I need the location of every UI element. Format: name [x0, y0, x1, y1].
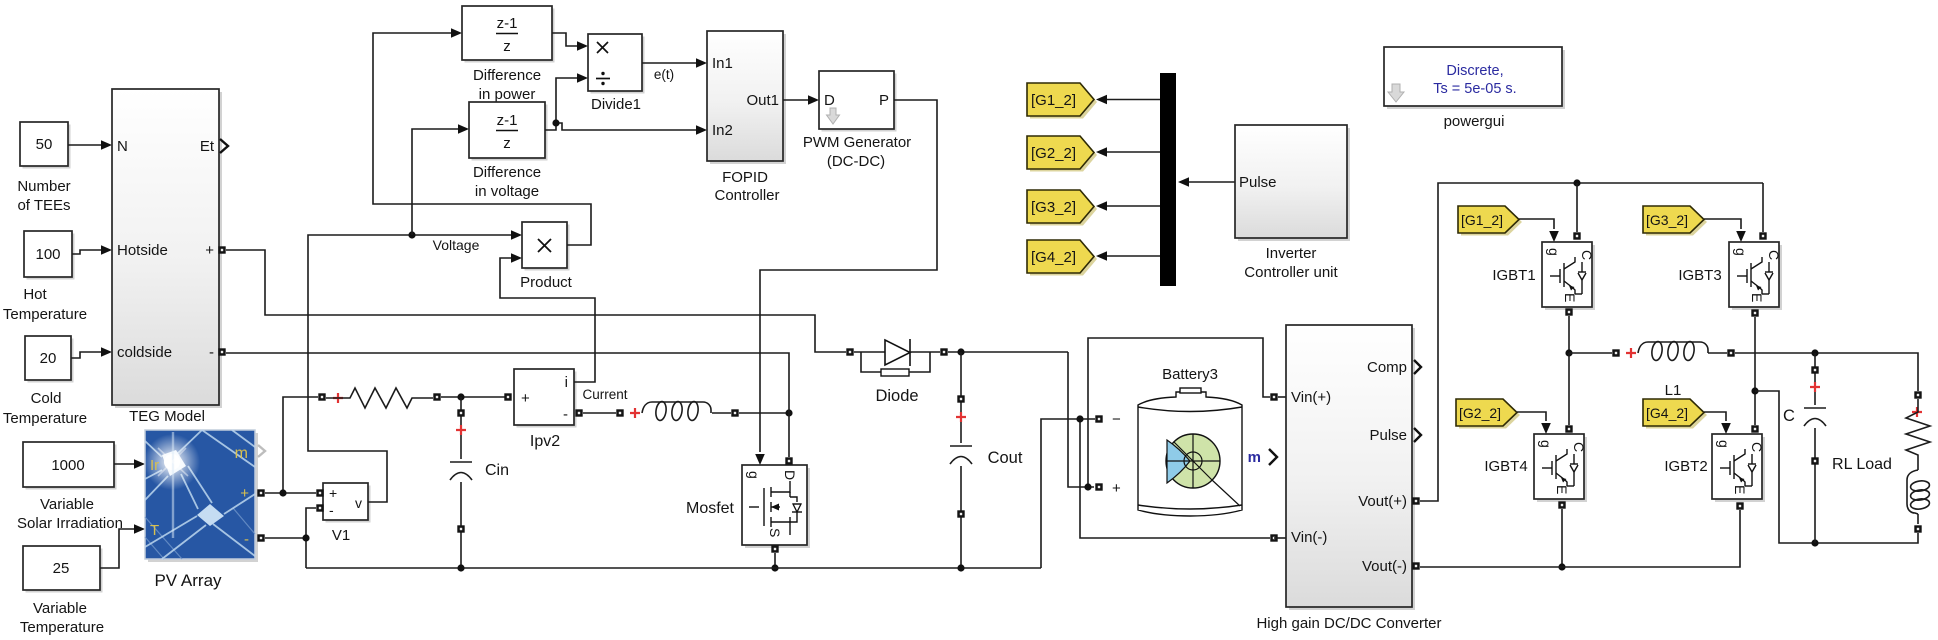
- svg-text:Pulse: Pulse: [1239, 174, 1277, 191]
- svg-text:(DC-DC): (DC-DC): [827, 153, 885, 170]
- svg-text:m: m: [1248, 449, 1261, 466]
- svg-text:Vout(-): Vout(-): [1362, 558, 1407, 575]
- svg-text:Cout: Cout: [988, 449, 1023, 467]
- output chevron Comp: [1414, 360, 1421, 374]
- constant block 20: [25, 336, 74, 383]
- bridge mid rail wires: [1569, 349, 1918, 391]
- svg-text:Controller unit: Controller unit: [1244, 264, 1338, 281]
- wire G2_2 to IGBT4 gate: [1517, 412, 1551, 434]
- svg-text:powergui: powergui: [1444, 113, 1505, 130]
- svg-text:+: +: [240, 485, 249, 502]
- wire G1_2 to IGBT1 gate: [1519, 219, 1559, 242]
- svg-text:Et: Et: [200, 138, 215, 155]
- output chevron PV m: [258, 445, 265, 457]
- svg-text:Ir: Ir: [150, 457, 159, 474]
- wire 20 to TEG coldside: [71, 347, 112, 358]
- wire Ipv2 i signal to Product in2: [500, 253, 595, 382]
- wire IGBT4 emitter to Vout minus rail: [1558, 501, 1565, 570]
- svg-text:High gain DC/DC Converter: High gain DC/DC Converter: [1256, 615, 1441, 632]
- svg-text:Discrete,: Discrete,: [1446, 63, 1503, 79]
- svg-text:Temperature: Temperature: [3, 410, 87, 427]
- svg-text:25: 25: [53, 560, 70, 577]
- wire Difference in power to Divide1: [552, 33, 588, 51]
- svg-text:Difference: Difference: [473, 164, 541, 181]
- inductor L input: [583, 401, 793, 421]
- svg-text:Temperature: Temperature: [3, 306, 87, 323]
- svg-text:D: D: [782, 470, 798, 480]
- port TEG plus: [218, 246, 225, 253]
- wire Vout plus to top dc rail: [1420, 179, 1763, 501]
- svg-text:1000: 1000: [51, 457, 84, 474]
- capacitor Cin: [450, 397, 472, 568]
- svg-text:-: -: [563, 406, 568, 423]
- svg-text:Mosfet: Mosfet: [686, 500, 735, 517]
- block PV Array: [144, 430, 258, 562]
- inductor L1: [1612, 341, 1734, 361]
- block PWM Generator DC-DC: [819, 71, 897, 132]
- goto tag G4_2: [1027, 240, 1097, 276]
- wire 25 to PV T: [100, 524, 145, 568]
- svg-text:i: i: [565, 374, 568, 391]
- wire top rail to IGBT3 collector: [1759, 183, 1766, 240]
- wire mux to G2_2: [1096, 147, 1160, 157]
- svg-text:Pulse: Pulse: [1369, 427, 1407, 444]
- svg-text:Solar Irradiation: Solar Irradiation: [17, 515, 123, 532]
- port battery minus: [1095, 415, 1102, 422]
- svg-text:[G2_2]: [G2_2]: [1031, 145, 1076, 162]
- wire bridge leg2 to load bottom rail: [1755, 391, 1918, 547]
- svg-text:IGBT1: IGBT1: [1492, 267, 1535, 284]
- wire mux to G3_2: [1096, 201, 1160, 211]
- block Mosfet: [742, 465, 810, 548]
- wire PV plus to V1 and resistor: [265, 397, 318, 497]
- wire Vin minus stub: [1274, 537, 1286, 539]
- wire 50 to TEG N: [68, 140, 112, 150]
- wire top rail to IGBT1 collector: [1573, 183, 1580, 240]
- wire FOPID Out1 to PWM D: [783, 95, 819, 105]
- wire bridge rail to IGBT4 collector: [1565, 353, 1572, 433]
- subsystem FOPID Controller: [707, 31, 786, 164]
- svg-text:z-1: z-1: [497, 112, 518, 129]
- RL load branch: [1906, 391, 1930, 532]
- svg-text:Inverter: Inverter: [1266, 245, 1317, 262]
- port V1 plus: [316, 489, 323, 496]
- svg-text:PV Array: PV Array: [154, 571, 222, 590]
- wire mux to G1_2: [1096, 95, 1160, 105]
- svg-text:[G4_2]: [G4_2]: [1031, 249, 1076, 266]
- port TEG minus: [218, 348, 225, 355]
- svg-text:[G3_2]: [G3_2]: [1031, 199, 1076, 216]
- wire Divide1 to FOPID In1: [642, 58, 707, 68]
- output chevron Pulse: [1414, 428, 1421, 442]
- svg-text:PWM Generator: PWM Generator: [803, 134, 911, 151]
- svg-text:e(t): e(t): [654, 67, 674, 82]
- port PV plus: [257, 489, 264, 496]
- IGBT3: [1729, 242, 1782, 310]
- svg-text:C: C: [1783, 407, 1795, 425]
- svg-text:IGBT4: IGBT4: [1484, 458, 1527, 475]
- svg-text:Current: Current: [582, 387, 627, 402]
- port Vout plus: [1412, 497, 1419, 504]
- constant block 100: [24, 231, 75, 280]
- wire Vout minus rail: [1420, 502, 1744, 567]
- svg-text:Ipv2: Ipv2: [530, 433, 560, 450]
- svg-text:Variable: Variable: [40, 496, 94, 513]
- wire Product output feedback to Difference in power: [373, 28, 591, 245]
- port Vin minus: [1270, 534, 1277, 541]
- svg-text:g: g: [746, 471, 762, 479]
- svg-text:Vin(-): Vin(-): [1291, 529, 1327, 546]
- constant block 25: [23, 546, 103, 593]
- wire 100 to TEG Hotside: [72, 245, 112, 255]
- svg-text:+: +: [521, 390, 530, 407]
- port V1 minus: [316, 504, 323, 511]
- svg-text:S: S: [767, 528, 783, 537]
- svg-text:+: +: [329, 485, 337, 501]
- constant block 1000: [23, 442, 117, 490]
- svg-text:Hot: Hot: [23, 286, 47, 303]
- svg-text:−: −: [1112, 411, 1121, 428]
- svg-text:z: z: [503, 135, 511, 152]
- port Mosfet source: [771, 545, 778, 552]
- wire G3_2 to IGBT3 gate: [1704, 219, 1746, 242]
- port Vin plus: [1270, 393, 1277, 400]
- svg-text:Hotside: Hotside: [117, 242, 168, 259]
- svg-text:+: +: [1112, 480, 1121, 497]
- svg-text:Number: Number: [17, 178, 70, 195]
- svg-text:TEG Model: TEG Model: [129, 408, 205, 425]
- battery minus wire to ground node: [1041, 415, 1270, 568]
- svg-text:20: 20: [40, 350, 57, 367]
- battery Battery3: [1112, 366, 1242, 516]
- port battery plus: [1095, 483, 1102, 490]
- svg-text:Out1: Out1: [746, 92, 779, 109]
- svg-text:-: -: [329, 502, 334, 518]
- wire resistor to Ipv2: [441, 393, 505, 400]
- battery m output: [1248, 449, 1277, 466]
- svg-text:N: N: [117, 138, 128, 155]
- svg-text:in voltage: in voltage: [475, 183, 539, 200]
- port Vout minus: [1412, 562, 1419, 569]
- svg-text:Diode: Diode: [875, 387, 918, 405]
- wire Difference in voltage to Divide1 and In2: [545, 73, 707, 135]
- svg-text:of TEEs: of TEEs: [17, 197, 70, 214]
- svg-text:Vout(+): Vout(+): [1358, 493, 1407, 510]
- diode D1 with snubber: [846, 339, 947, 376]
- wire dc bus to battery plus: [1068, 338, 1270, 491]
- svg-text:-: -: [244, 531, 249, 548]
- svg-text:Product: Product: [520, 274, 573, 291]
- svg-text:[G2_2]: [G2_2]: [1459, 405, 1501, 421]
- svg-text:-: -: [209, 344, 214, 361]
- IGBT4: [1534, 434, 1587, 502]
- svg-text:In2: In2: [712, 122, 733, 139]
- capacitor C: [1804, 353, 1826, 543]
- svg-text:Voltage: Voltage: [433, 237, 480, 253]
- svg-text:RL Load: RL Load: [1832, 456, 1892, 473]
- svg-text:Battery3: Battery3: [1162, 366, 1218, 383]
- svg-text:100: 100: [35, 246, 60, 263]
- wire Voltage branch to Difference in voltage: [412, 124, 469, 235]
- constant block 50: [20, 122, 71, 169]
- wire TEG minus to Mosfet drain: [226, 353, 789, 457]
- svg-text:Variable: Variable: [33, 600, 87, 617]
- from tag G1_2 right: [1458, 206, 1522, 236]
- wire Inverter Pulse to demux: [1178, 177, 1235, 187]
- from tag G3_2: [1643, 206, 1707, 236]
- svg-text:Temperature: Temperature: [20, 619, 104, 636]
- wire IGBT3 emitter to IGBT2 collector: [1751, 309, 1758, 432]
- block Difference in power: [462, 6, 555, 63]
- svg-text:P: P: [879, 92, 889, 109]
- svg-text:Cold: Cold: [31, 390, 62, 407]
- wire IGBT1 emitter to bridge rail: [1565, 308, 1572, 356]
- svg-text:+: +: [205, 242, 214, 259]
- resistor R series: [318, 388, 440, 408]
- svg-text:D: D: [824, 92, 835, 109]
- subsystem Inverter Controller unit: [1235, 125, 1350, 241]
- block Divide1: [588, 34, 645, 94]
- svg-text:Comp: Comp: [1367, 359, 1407, 376]
- svg-text:v: v: [355, 495, 362, 511]
- demux bar: [1160, 73, 1176, 286]
- svg-text:[G1_2]: [G1_2]: [1461, 212, 1503, 228]
- goto tag G2_2: [1027, 136, 1097, 172]
- wire V1 output to Voltage line and Product: [308, 230, 522, 502]
- voltage measurement V1: [323, 483, 371, 523]
- svg-text:[G4_2]: [G4_2]: [1646, 405, 1688, 421]
- current measurement Ipv2: [514, 369, 577, 428]
- svg-text:in power: in power: [479, 86, 536, 103]
- svg-text:V1: V1: [332, 527, 350, 544]
- svg-text:FOPID: FOPID: [722, 169, 768, 186]
- wire G4_2 to IGBT2 gate: [1704, 412, 1731, 434]
- wire Vin plus stub: [1278, 396, 1286, 398]
- IGBT1: [1542, 242, 1595, 310]
- svg-text:m: m: [235, 445, 248, 462]
- port Ipv2 minus: [575, 409, 582, 416]
- svg-text:Controller: Controller: [714, 187, 779, 204]
- IGBT2: [1712, 434, 1765, 502]
- svg-text:z: z: [503, 38, 511, 55]
- port Mosfet drain: [785, 457, 792, 464]
- port PV minus: [257, 534, 264, 541]
- svg-text:IGBT2: IGBT2: [1664, 458, 1707, 475]
- svg-text:Difference: Difference: [473, 67, 541, 84]
- wire PWM P to Mosfet gate: [755, 100, 937, 465]
- goto tag G1_2: [1027, 83, 1097, 119]
- wire 1000 to PV Ir: [114, 459, 145, 469]
- block Difference in voltage: [469, 102, 548, 161]
- output chevron Et: [220, 139, 228, 153]
- wire Mosfet source to ground rail: [771, 553, 778, 572]
- svg-text:In1: In1: [712, 55, 733, 72]
- svg-text:coldside: coldside: [117, 344, 172, 361]
- subsystem TEG Model: [112, 89, 222, 408]
- svg-text:Divide1: Divide1: [591, 96, 641, 113]
- wire mux to G4_2: [1096, 251, 1160, 261]
- svg-text:[G3_2]: [G3_2]: [1646, 212, 1688, 228]
- goto tag G3_2: [1027, 190, 1097, 226]
- svg-text:Cin: Cin: [485, 462, 509, 479]
- svg-text:z-1: z-1: [497, 15, 518, 32]
- from tag G2_2: [1456, 399, 1520, 429]
- svg-text:Ts = 5e-05 s.: Ts = 5e-05 s.: [1433, 81, 1516, 97]
- svg-text:50: 50: [36, 136, 53, 153]
- subsystem High gain DC/DC Converter: [1286, 325, 1415, 610]
- block powergui: [1384, 47, 1565, 109]
- port Ipv2 plus: [504, 393, 511, 400]
- block Product: [522, 222, 570, 271]
- svg-text:L1: L1: [1665, 382, 1682, 399]
- wire diode output node: [948, 348, 1068, 355]
- svg-text:Vin(+): Vin(+): [1291, 389, 1331, 406]
- from tag G4_2: [1643, 399, 1707, 429]
- svg-text:T: T: [150, 522, 159, 539]
- capacitor Cout: [950, 352, 972, 572]
- wire TEG plus to Diode: [226, 250, 846, 352]
- svg-text:[G1_2]: [G1_2]: [1031, 92, 1076, 109]
- svg-text:IGBT3: IGBT3: [1678, 267, 1721, 284]
- ground rail: [306, 564, 1041, 571]
- wire PV minus / V1 minus to ground rail: [265, 508, 316, 568]
